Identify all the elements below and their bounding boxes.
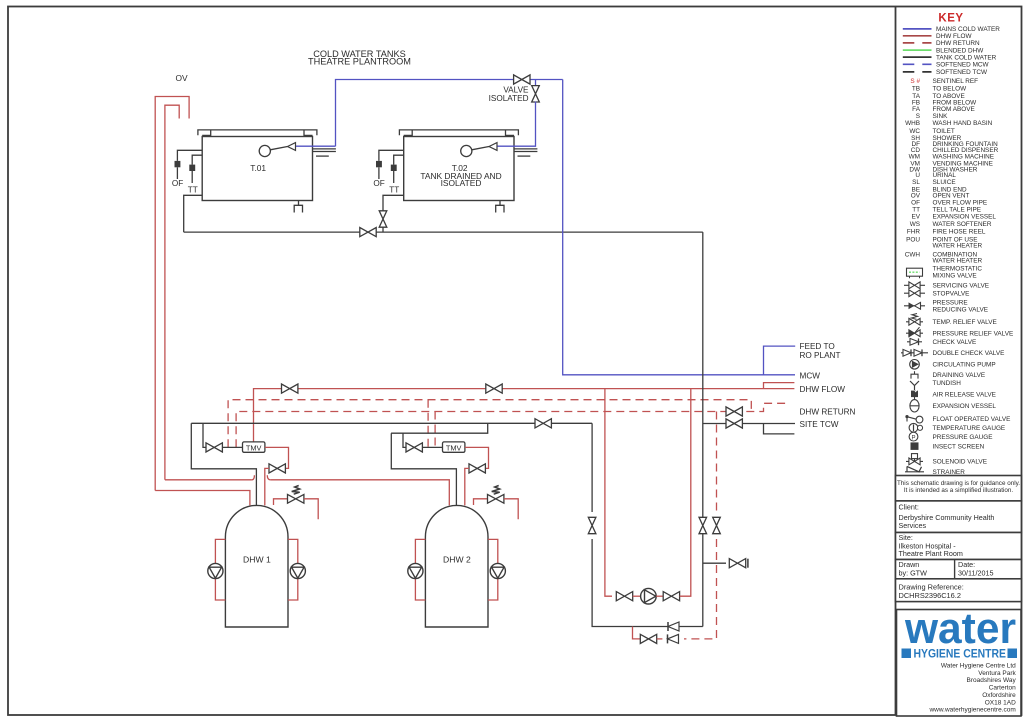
wire secondary loop left drop	[591, 423, 593, 512]
svg-text:WC: WC	[909, 128, 920, 135]
svg-text:FHR: FHR	[907, 229, 921, 236]
stopvalve on collection main	[360, 228, 376, 237]
key symbol check valve	[907, 341, 922, 343]
svg-text:OV: OV	[175, 73, 188, 83]
key symbol tundish	[910, 381, 919, 390]
drawing reference box	[896, 579, 1022, 602]
stopvalve on cylinder unit1 flow	[269, 464, 285, 473]
secondary return loop left of DHW 2	[415, 539, 425, 600]
svg-text:Broadshires Way: Broadshires Way	[967, 677, 1017, 684]
svg-text:DCHRS2396C16.2: DCHRS2396C16.2	[899, 591, 961, 600]
svg-text:by: GTW: by: GTW	[899, 568, 928, 577]
stopvalve on MCW main (isolated)	[514, 75, 530, 84]
svg-text:TUNDISH: TUNDISH	[933, 380, 962, 387]
wire DHW return into cylinder 1	[155, 491, 250, 506]
svg-text:SENTINEL REF: SENTINEL REF	[933, 78, 979, 85]
wire DHW return lower main	[236, 403, 790, 447]
wire T.02 feed to float valve	[498, 102, 536, 147]
svg-text:Theatre Plant Room: Theatre Plant Room	[899, 549, 963, 558]
svg-text:FIRE HOSE REEL: FIRE HOSE REEL	[933, 229, 986, 236]
thermostatic mixing valve TMV unit1	[243, 442, 265, 452]
svg-text:EV: EV	[911, 213, 920, 220]
wire relief discharge unit2	[504, 499, 518, 520]
draining valve on T.02 outlet	[379, 211, 387, 227]
open vent pipe outer	[155, 97, 189, 491]
wire T.01 float inlet	[296, 145, 336, 147]
stopvalve on site TCW label branch	[726, 419, 742, 428]
svg-text:Water Hygiene Centre Ltd: Water Hygiene Centre Ltd	[941, 663, 1016, 670]
wire TMV unit1 hot port loop	[265, 447, 289, 468]
svg-text:REDUCING VALVE: REDUCING VALVE	[933, 306, 989, 313]
svg-text:TELL TALE PIPE: TELL TALE PIPE	[933, 206, 982, 213]
wire flow riser into cylinder unit1	[265, 468, 269, 505]
wire pump discharge riser	[680, 389, 691, 597]
wire pump suction riser	[605, 389, 612, 597]
svg-text:STOPVALVE: STOPVALVE	[933, 291, 970, 298]
key symbol air release valve	[911, 391, 918, 398]
svg-text:DHW RETURN: DHW RETURN	[800, 408, 856, 417]
key symbol insect screen	[911, 442, 919, 450]
svg-text:30/11/2015: 30/11/2015	[958, 568, 993, 577]
svg-text:CIRCULATING PUMP: CIRCULATING PUMP	[933, 362, 996, 369]
wire DHW return into cylinder 2 (with pipe hop)	[165, 479, 252, 481]
key line samples	[903, 28, 932, 30]
svg-text:Ventura Park: Ventura Park	[978, 670, 1016, 677]
stopvalve on DHW flow branch 1	[282, 384, 298, 393]
svg-text:KEY: KEY	[938, 13, 963, 25]
wire TCW drop from tanks	[702, 232, 704, 626]
svg-text:TANK COLD WATER: TANK COLD WATER	[936, 54, 997, 61]
tank T.02 body	[404, 137, 514, 201]
svg-text:FEED TO: FEED TO	[800, 342, 835, 351]
svg-text:TT: TT	[389, 186, 399, 195]
temp relief valve on cylinder unit2	[474, 499, 488, 505]
key symbol servicing valve	[904, 284, 925, 286]
svg-text:WATER HEATER: WATER HEATER	[933, 243, 983, 250]
svg-text:SERVICING VALVE: SERVICING VALVE	[933, 283, 989, 290]
servicing valve before TMV unit2	[406, 443, 422, 452]
secondary return loop right of DHW 2	[488, 539, 498, 600]
svg-text:SINK: SINK	[933, 113, 949, 120]
svg-text:TT: TT	[188, 186, 198, 195]
stopvalve on return bypass	[640, 634, 656, 643]
svg-text:TMV: TMV	[446, 443, 462, 452]
wire DHW flow main	[254, 389, 764, 442]
cylinder DHW 2 vessel	[425, 505, 488, 627]
wire valve to TMV unit1	[222, 446, 242, 448]
svg-text:S #: S #	[910, 78, 920, 85]
svg-text:Oxfordshire: Oxfordshire	[982, 692, 1016, 699]
svg-text:OF: OF	[373, 179, 384, 188]
svg-text:DOUBLE CHECK VALVE: DOUBLE CHECK VALVE	[933, 350, 1005, 357]
svg-text:WHB: WHB	[905, 120, 920, 127]
key symbol stopvalve	[904, 292, 925, 294]
svg-text:SOFTENED MCW: SOFTENED MCW	[936, 62, 990, 69]
key symbol pressure reducing valve	[904, 305, 925, 307]
key symbol pressure relief valve	[906, 332, 923, 334]
stopvalve on DHW flow branch 2	[486, 384, 502, 393]
wire valve to TMV unit2	[422, 446, 442, 448]
wire site TCW sub main unit2	[391, 423, 488, 433]
svg-text:WATER HEATER: WATER HEATER	[933, 258, 983, 265]
svg-text:DHW FLOW: DHW FLOW	[936, 33, 972, 40]
key symbol double check valve	[901, 352, 928, 354]
wire blind end drain	[703, 562, 726, 564]
wire DHW return upper main	[228, 400, 751, 448]
svg-text:SITE TCW: SITE TCW	[800, 420, 839, 429]
key symbol expansion vessel	[910, 400, 919, 412]
wire return bypass mid	[657, 638, 663, 640]
draining valve on TCW drop	[699, 517, 707, 533]
wire loop bottom	[592, 539, 703, 627]
tank T.01 inlet sleeve	[313, 148, 336, 150]
svg-text:ISOLATED: ISOLATED	[441, 178, 482, 188]
circulating pump right unit2	[490, 563, 505, 578]
svg-text:SOFTENED TCW: SOFTENED TCW	[936, 69, 988, 76]
wire T.01 outlet to collection main	[184, 195, 203, 232]
key symbol float operated valve	[916, 416, 923, 423]
svg-text:MCW: MCW	[800, 371, 821, 380]
key symbol circulating pump	[910, 360, 920, 370]
circulating pump left unit1	[208, 563, 223, 578]
key symbol temperature gauge	[909, 423, 918, 432]
svg-text:OX18 1AD: OX18 1AD	[985, 699, 1016, 706]
svg-text:www.waterhygienecentre.com: www.waterhygienecentre.com	[928, 707, 1015, 714]
client box	[896, 501, 1022, 533]
logo hygiene centre	[902, 649, 912, 659]
svg-text:DHW 1: DHW 1	[243, 555, 271, 565]
wire site TCW main	[191, 422, 592, 424]
draining valve on return riser	[713, 517, 721, 533]
wire mains cold water top main	[336, 80, 563, 147]
key symbol pressure gauge	[909, 432, 918, 441]
svg-text:EXPANSION VESSEL: EXPANSION VESSEL	[933, 403, 997, 410]
wire feed to RO plant	[764, 346, 796, 375]
disclaimer box	[896, 476, 1022, 501]
wire T.02 feed riser	[535, 80, 537, 87]
svg-text:INSECT SCREEN: INSECT SCREEN	[933, 443, 985, 450]
stopvalve on T.02 feed riser	[532, 86, 540, 102]
wire T.02 outlet below valve	[382, 228, 384, 233]
svg-text:SOLENOID VALVE: SOLENOID VALVE	[933, 459, 987, 466]
svg-text:DRAINING VALVE: DRAINING VALVE	[933, 372, 986, 379]
cylinder DHW 1 vessel	[225, 505, 288, 627]
tank T.01 lid	[198, 130, 317, 135]
wire pump outlet stub	[656, 595, 663, 597]
wire DHW return riser lower	[684, 539, 717, 639]
svg-text:WATER SOFTENER: WATER SOFTENER	[933, 221, 992, 228]
svg-text:HYGIENE CENTRE: HYGIENE CENTRE	[914, 646, 1007, 660]
stopvalve before circulating pump	[616, 592, 632, 601]
check valve on loop bottom	[667, 622, 669, 631]
svg-text:T.01: T.01	[250, 163, 266, 173]
svg-text:TB: TB	[912, 86, 920, 93]
svg-text:CWH: CWH	[905, 251, 921, 258]
svg-text:Client:: Client:	[899, 503, 919, 512]
svg-text:TEMP. RELIEF VALVE: TEMP. RELIEF VALVE	[933, 319, 997, 326]
svg-text:AIR RELEASE VALVE: AIR RELEASE VALVE	[933, 391, 996, 398]
wire pump inlet stub	[633, 595, 641, 597]
tank T.02 drain fitting	[499, 201, 501, 206]
check valve on return bypass	[667, 634, 669, 643]
svg-text:TEMPERATURE GAUGE: TEMPERATURE GAUGE	[933, 425, 1006, 432]
key symbol strainer	[905, 471, 924, 473]
svg-text:THEATRE PLANTROOM: THEATRE PLANTROOM	[308, 57, 411, 67]
stopvalve on cylinder unit2 flow	[469, 464, 485, 473]
wire cold feed down-and-around unit2	[391, 433, 456, 505]
svg-text:OF: OF	[172, 179, 183, 188]
svg-text:DHW FLOW: DHW FLOW	[800, 385, 846, 394]
wire flow riser into cylinder unit2	[465, 468, 469, 505]
svg-text:FLOAT OPERATED VALVE: FLOAT OPERATED VALVE	[933, 416, 1011, 423]
wire TCW branch to TMV unit1	[203, 423, 207, 447]
svg-text:ISOLATED: ISOLATED	[489, 94, 529, 103]
tank T.02 overflow pipe OF with insect screen	[379, 150, 404, 161]
stopvalve on site TCW main	[535, 419, 551, 428]
wire TCW branch to TMV unit2	[403, 433, 407, 447]
circulating pump	[641, 588, 657, 604]
svg-text:TO BELOW: TO BELOW	[933, 86, 968, 93]
thermostatic mixing valve TMV unit2	[443, 442, 465, 452]
draining valve on loop left drop	[588, 517, 596, 533]
tank T.02 lid	[399, 130, 518, 135]
svg-text:SLUICE: SLUICE	[933, 179, 956, 186]
stopvalve on blind end drain	[729, 559, 745, 568]
wire tank cold water collection main	[184, 231, 703, 233]
wire MCW drop to low level	[563, 80, 795, 375]
float operated valve in tank T.02	[461, 145, 472, 156]
key symbol draining valve	[914, 371, 916, 374]
tank T.01 drain fitting	[298, 201, 300, 206]
float operated valve in tank T.01	[259, 145, 270, 156]
wire TMV unit2 hot port loop	[465, 447, 489, 468]
blind end cap	[747, 559, 749, 568]
tank T.02 tell tale pipe TT with insect screen	[394, 155, 404, 164]
circulating pump left unit2	[408, 563, 423, 578]
stopvalve on DHW return	[726, 407, 742, 416]
svg-text:DHW RETURN: DHW RETURN	[936, 40, 980, 47]
circulating pump right unit1	[290, 563, 305, 578]
tank T.01 body	[202, 137, 312, 201]
tank T.01 tell tale pipe TT with insect screen	[192, 155, 202, 164]
svg-text:PRESSURE GAUGE: PRESSURE GAUGE	[933, 434, 993, 441]
svg-text:BLENDED DHW: BLENDED DHW	[936, 47, 984, 54]
wire return bypass drop	[633, 627, 641, 639]
wire site TCW label branch	[703, 424, 795, 434]
svg-text:It is intended as a simplified: It is intended as a simplified illustrat…	[904, 487, 1013, 494]
tank T.02 inlet sleeve	[514, 148, 537, 150]
temp relief valve on cylinder unit1	[274, 499, 288, 505]
svg-text:Carterton: Carterton	[989, 685, 1016, 692]
svg-text:TT: TT	[912, 206, 920, 213]
svg-text:SL: SL	[912, 179, 920, 186]
secondary return loop right of DHW 1	[288, 539, 298, 600]
key symbol thermostatic mixing valve	[907, 268, 923, 276]
key symbol temp relief valve	[906, 321, 923, 323]
svg-text:RO PLANT: RO PLANT	[800, 351, 841, 360]
secondary return loop left of DHW 1	[215, 539, 225, 600]
drawn-date box	[896, 560, 1022, 579]
stopvalve after circulating pump	[663, 592, 679, 601]
svg-text:EXPANSION VESSEL: EXPANSION VESSEL	[933, 213, 997, 220]
wire T.02 outlet drop	[383, 195, 404, 210]
svg-text:This schematic drawing is for: This schematic drawing is for guidance o…	[897, 480, 1020, 487]
wire cold feed down-and-around unit1	[191, 423, 256, 505]
key panel left border	[895, 7, 897, 716]
svg-text:TMV: TMV	[246, 443, 262, 452]
svg-text:CHECK VALVE: CHECK VALVE	[933, 339, 977, 346]
svg-text:P: P	[911, 435, 915, 441]
svg-text:WS: WS	[910, 221, 920, 228]
svg-text:Services: Services	[899, 521, 927, 530]
key symbol solenoid valve	[906, 460, 923, 462]
svg-text:TOILET: TOILET	[933, 128, 955, 135]
wire relief discharge unit1	[304, 499, 318, 520]
servicing valve before TMV unit1	[206, 443, 222, 452]
open vent pipe inner	[165, 105, 179, 480]
wire DHW return risers unit2	[428, 400, 435, 448]
svg-text:PRESSURE RELIEF VALVE: PRESSURE RELIEF VALVE	[933, 331, 1014, 338]
tank T.01 overflow pipe OF with insect screen	[177, 150, 202, 161]
svg-text:WASH HAND BASIN: WASH HAND BASIN	[933, 120, 993, 127]
svg-text:S: S	[916, 113, 920, 120]
svg-text:POU: POU	[906, 236, 920, 243]
logo box	[897, 610, 1022, 717]
wire DHW flow label stub	[764, 383, 795, 389]
wire DHW return riser to pump set	[716, 412, 718, 513]
svg-text:DHW 2: DHW 2	[443, 555, 471, 565]
svg-text:MIXING VALVE: MIXING VALVE	[933, 272, 977, 279]
site box	[896, 533, 1022, 560]
